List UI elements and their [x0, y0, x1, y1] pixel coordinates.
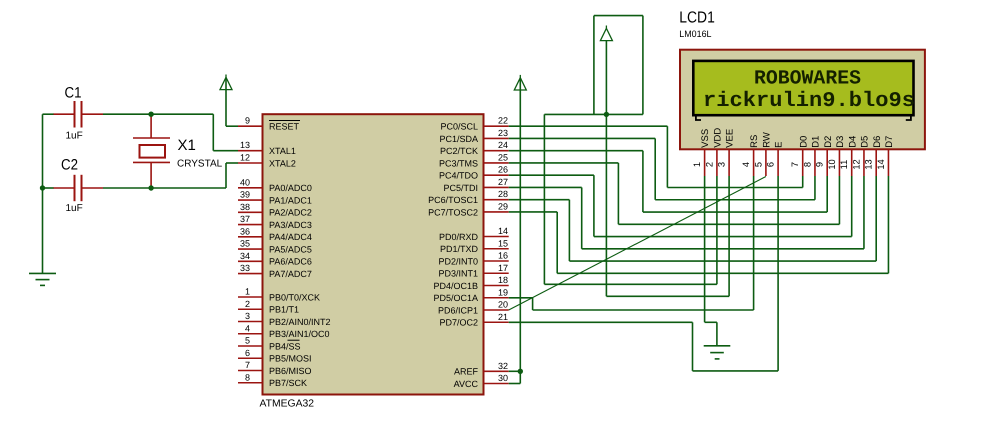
svg-text:rickrulin9.blo9s: rickrulin9.blo9s: [703, 90, 915, 113]
pin 6 (PB5/MOSI) stub + number + label: [238, 348, 312, 364]
pin 30 (AVCC) stub + number + label: [454, 373, 509, 389]
svg-text:D5: D5: [860, 136, 871, 148]
svg-text:28: 28: [498, 189, 508, 199]
crystal X1: [133, 114, 223, 188]
svg-text:2: 2: [704, 162, 714, 167]
svg-text:D4: D4: [847, 136, 858, 148]
svg-text:PD3/INT1: PD3/INT1: [438, 269, 478, 279]
wire PC5 (pin 27) to LCD D5: [509, 176, 864, 249]
IC U1 ATMEGA32 body: [263, 114, 484, 394]
svg-text:15: 15: [498, 238, 508, 248]
svg-text:X1: X1: [178, 137, 196, 154]
pin 15 (PD1/TXD) stub + number + label: [440, 238, 509, 254]
svg-text:11: 11: [839, 160, 849, 170]
pin 38 (PA2/ADC2) stub + number + label: [238, 202, 312, 218]
svg-text:25: 25: [498, 152, 508, 162]
pin 18 (PD4/OC1B) stub + number + label: [433, 275, 508, 291]
pin 37 (PA3/ADC3) stub + number + label: [238, 214, 312, 230]
svg-text:36: 36: [240, 226, 250, 236]
svg-text:22: 22: [498, 116, 508, 126]
svg-text:37: 37: [240, 214, 250, 224]
svg-text:4: 4: [245, 323, 250, 333]
LCD pin 4 (RS) stub + number + label: [741, 135, 760, 176]
LCD pin 10 (D3) stub + number + label: [827, 136, 846, 176]
svg-text:PD0/RXD: PD0/RXD: [439, 232, 479, 242]
svg-text:23: 23: [498, 128, 508, 138]
svg-text:35: 35: [240, 239, 250, 249]
pin 14 (PD0/RXD) stub + number + label: [439, 226, 509, 242]
pin 4 (PB3/AIN1/OC0) stub + number + label: [238, 323, 330, 339]
svg-text:LCD1: LCD1: [679, 10, 715, 27]
svg-text:24: 24: [498, 140, 508, 150]
svg-text:PC4/TDO: PC4/TDO: [439, 171, 478, 181]
pin 25 (PC3/TMS) stub + number + label: [439, 152, 509, 168]
wire RS net (PD5 pin 19 to LCD pin 4): [509, 176, 754, 310]
LCD pin 8 (D1) stub + number + label: [802, 136, 821, 176]
wire AVCC: [509, 371, 521, 383]
svg-text:20: 20: [498, 300, 508, 310]
LCD LM016L body: [680, 50, 925, 150]
svg-text:PD6/ICP1: PD6/ICP1: [438, 305, 478, 315]
svg-text:6: 6: [245, 348, 250, 358]
svg-text:40: 40: [240, 177, 250, 187]
LCD pin 1 (VSS) stub + number + label: [692, 129, 711, 176]
svg-text:PD7/OC2: PD7/OC2: [439, 318, 478, 328]
wire VDD net (top loop + lane to LCD pin 2): [544, 16, 717, 285]
node C2/ground junction: [40, 185, 45, 190]
svg-text:C1: C1: [65, 85, 82, 102]
svg-text:16: 16: [498, 251, 508, 261]
wire PC1 (pin 23) to LCD D1: [509, 138, 815, 199]
LCD pin 3 (VEE) stub + number + label: [717, 129, 736, 176]
svg-text:PD4/OC1B: PD4/OC1B: [433, 281, 478, 291]
LCD pin 5 (RW) stub + number + label: [753, 132, 772, 176]
pin 23 (PC1/SDA) stub + number + label: [439, 128, 508, 144]
pin 20 (PD6/ICP1) stub + number + label: [438, 300, 509, 316]
wire E net (PD7 pin 21 to LCD pin 6): [509, 176, 778, 371]
svg-text:D6: D6: [872, 136, 883, 148]
svg-text:19: 19: [498, 287, 508, 297]
pin 33 (PA7/ADC7) stub + number + label: [238, 263, 312, 279]
svg-text:XTAL2: XTAL2: [269, 158, 296, 168]
svg-text:26: 26: [498, 165, 508, 175]
LCD display screen: [693, 61, 913, 115]
svg-text:13: 13: [864, 159, 874, 169]
LCD pin 7 (D0) stub + number + label: [790, 136, 809, 176]
svg-text:PD2/INT0: PD2/INT0: [438, 256, 478, 266]
wire PC6 (pin 28) to LCD D6: [509, 176, 877, 261]
svg-text:5: 5: [753, 162, 763, 167]
svg-text:PA1/ADC1: PA1/ADC1: [269, 195, 312, 205]
wire VEE net (arrow lane to LCD pin 3): [606, 114, 729, 296]
svg-text:29: 29: [498, 201, 508, 211]
pin 8 (PB7/SCK) stub + number + label: [238, 372, 307, 388]
svg-text:XTAL1: XTAL1: [269, 146, 296, 156]
svg-text:PC0/SCL: PC0/SCL: [440, 122, 478, 132]
pin 9 (RESET) stub + number + label: [238, 116, 300, 132]
svg-text:D3: D3: [835, 136, 846, 148]
svg-text:9: 9: [815, 162, 825, 167]
pin 39 (PA1/ADC1) stub + number + label: [238, 190, 312, 206]
LCD pin 6 (E) stub + number + label: [766, 141, 785, 176]
pin 26 (PC4/TDO) stub + number + label: [439, 165, 509, 181]
svg-text:7: 7: [245, 360, 250, 370]
pin 22 (PC0/SCL) stub + number + label: [440, 116, 508, 132]
svg-text:PB4/SS: PB4/SS: [269, 341, 301, 351]
svg-text:9: 9: [245, 116, 250, 126]
pin 1 (PB0/T0/XCK) stub + number + label: [238, 287, 320, 303]
svg-text:RS: RS: [749, 135, 760, 148]
pin 13 (XTAL1) stub + number + label: [238, 140, 296, 156]
svg-text:34: 34: [240, 251, 250, 261]
svg-text:VSS: VSS: [700, 129, 711, 148]
ground (LCD): [704, 346, 731, 359]
pin 36 (PA4/ADC4) stub + number + label: [238, 226, 312, 242]
power VCC arrow (RESET): [220, 75, 238, 127]
svg-text:PB2/AIN0/INT2: PB2/AIN0/INT2: [269, 317, 331, 327]
svg-text:18: 18: [498, 275, 508, 285]
svg-text:PA6/ADC6: PA6/ADC6: [269, 257, 312, 267]
pin 5 (PB4/SS) stub + number + label: [238, 336, 301, 352]
svg-text:2: 2: [245, 299, 250, 309]
svg-text:PA0/ADC0: PA0/ADC0: [269, 183, 312, 193]
svg-text:39: 39: [240, 190, 250, 200]
svg-text:32: 32: [498, 361, 508, 371]
svg-text:1uF: 1uF: [66, 203, 83, 214]
pin 2 (PB1/T1) stub + number + label: [238, 299, 299, 315]
svg-text:E: E: [774, 141, 785, 147]
svg-text:D1: D1: [811, 136, 822, 148]
LCD screen corner marks: [696, 116, 701, 120]
svg-text:LM016L: LM016L: [679, 29, 711, 39]
pin 34 (PA6/ADC6) stub + number + label: [238, 251, 312, 267]
svg-text:1uF: 1uF: [66, 131, 83, 142]
svg-text:PB6/MISO: PB6/MISO: [269, 366, 312, 376]
capacitor C1: [53, 85, 103, 142]
LCD pin 13 (D6) stub + number + label: [864, 136, 883, 176]
svg-text:ROBOWARES: ROBOWARES: [754, 68, 861, 91]
wire C1 net to XTAL1: [43, 114, 239, 151]
node VDD junction: [604, 112, 609, 117]
pin 32 (AREF) stub + number + label: [454, 361, 509, 377]
LCD pin 14 (D7) stub + number + label: [876, 136, 895, 176]
svg-text:CRYSTAL: CRYSTAL: [177, 159, 223, 170]
node AREF junction: [518, 369, 523, 374]
svg-text:ATMEGA32: ATMEGA32: [260, 399, 315, 410]
svg-text:PA7/ADC7: PA7/ADC7: [269, 269, 312, 279]
svg-text:PD5/OC1A: PD5/OC1A: [433, 293, 478, 303]
svg-text:7: 7: [790, 162, 800, 167]
svg-text:PA5/ADC5: PA5/ADC5: [269, 244, 312, 254]
svg-text:PB7/SCK: PB7/SCK: [269, 378, 307, 388]
pin 3 (PB2/AIN0/INT2) stub + number + label: [238, 311, 331, 327]
svg-text:6: 6: [766, 162, 776, 167]
svg-text:30: 30: [498, 373, 508, 383]
svg-text:PD1/TXD: PD1/TXD: [440, 244, 479, 254]
svg-text:VEE: VEE: [725, 129, 736, 148]
svg-text:D2: D2: [823, 136, 834, 148]
pin 28 (PC6/TOSC1) stub + number + label: [428, 189, 509, 205]
svg-text:10: 10: [827, 159, 837, 169]
svg-text:12: 12: [240, 153, 250, 163]
svg-text:8: 8: [245, 372, 250, 382]
pin 17 (PD3/INT1) stub + number + label: [438, 263, 508, 279]
svg-text:PA2/ADC2: PA2/ADC2: [269, 208, 312, 218]
svg-text:RESET: RESET: [269, 122, 300, 132]
wire PC2 (pin 24) to LCD D2: [509, 151, 828, 212]
svg-text:PC2/TCK: PC2/TCK: [440, 146, 478, 156]
wire left ground rail: [42, 114, 44, 273]
node C2/X1 junction: [148, 185, 153, 190]
svg-text:PB3/AIN1/OC0: PB3/AIN1/OC0: [269, 329, 330, 339]
svg-text:AVCC: AVCC: [454, 379, 479, 389]
svg-text:PC6/TOSC1: PC6/TOSC1: [428, 195, 478, 205]
svg-text:38: 38: [240, 202, 250, 212]
svg-text:VDD: VDD: [713, 128, 724, 148]
svg-text:PB5/MOSI: PB5/MOSI: [269, 354, 312, 364]
svg-text:PB1/T1: PB1/T1: [269, 305, 299, 315]
svg-text:12: 12: [851, 159, 861, 169]
svg-text:D7: D7: [884, 136, 895, 148]
svg-text:27: 27: [498, 177, 508, 187]
svg-text:PC3/TMS: PC3/TMS: [439, 158, 478, 168]
wire VSS net (LCD pin 1 to ground): [705, 176, 717, 346]
svg-text:PB0/T0/XCK: PB0/T0/XCK: [269, 292, 320, 302]
svg-text:PC1/SDA: PC1/SDA: [439, 134, 478, 144]
svg-text:5: 5: [245, 336, 250, 346]
wire RW net diagonal (PD6 pin 20 to LCD pin 5): [509, 177, 766, 311]
svg-text:3: 3: [245, 311, 250, 321]
node C1/X1 junction: [148, 112, 153, 117]
svg-text:17: 17: [498, 263, 508, 273]
svg-text:1: 1: [245, 287, 250, 297]
svg-text:D0: D0: [798, 136, 809, 148]
pin 40 (PA0/ADC0) stub + number + label: [238, 177, 312, 193]
svg-text:3: 3: [717, 162, 727, 167]
svg-text:8: 8: [802, 162, 812, 167]
svg-text:RW: RW: [762, 132, 773, 148]
svg-text:PC5/TDI: PC5/TDI: [443, 183, 478, 193]
LCD pin 9 (D2) stub + number + label: [815, 136, 834, 176]
svg-text:14: 14: [876, 159, 886, 169]
svg-text:PA4/ADC4: PA4/ADC4: [269, 232, 312, 242]
wire C2 net to XTAL2: [43, 163, 239, 188]
wire PC7 (pin 29) to LCD D7: [509, 176, 889, 273]
pin 7 (PB6/MISO) stub + number + label: [238, 360, 312, 376]
power VCC arrow (AREF/AVCC): [514, 75, 526, 371]
svg-text:21: 21: [498, 312, 508, 322]
pin 21 (PD7/OC2) stub + number + label: [439, 312, 508, 328]
ground (left): [29, 273, 56, 285]
LCD pin 2 (VDD) stub + number + label: [704, 128, 723, 176]
svg-text:4: 4: [741, 162, 751, 167]
pin 19 (PD5/OC1A) stub + number + label: [433, 287, 508, 303]
wire PC0 (pin 22) to LCD D0: [509, 126, 803, 187]
pin 24 (PC2/TCK) stub + number + label: [440, 140, 509, 156]
pin 12 (XTAL2) stub + number + label: [238, 153, 296, 169]
pin 29 (PC7/TOSC2) stub + number + label: [428, 201, 509, 217]
pin 16 (PD2/INT0) stub + number + label: [438, 251, 508, 267]
svg-text:AREF: AREF: [454, 367, 479, 377]
pin 27 (PC5/TDI) stub + number + label: [443, 177, 508, 193]
svg-text:14: 14: [498, 226, 508, 236]
svg-text:13: 13: [240, 140, 250, 150]
svg-text:33: 33: [240, 263, 250, 273]
svg-text:PA3/ADC3: PA3/ADC3: [269, 220, 312, 230]
svg-text:C2: C2: [61, 157, 78, 174]
wire PC3 (pin 25) to LCD D3: [509, 163, 840, 224]
wire PC4 (pin 26) to LCD D4: [509, 175, 852, 236]
power VCC arrow (VDD): [600, 26, 612, 115]
capacitor C2: [53, 157, 103, 214]
svg-text:PC7/TOSC2: PC7/TOSC2: [428, 207, 478, 217]
LCD pin 11 (D4) stub + number + label: [839, 136, 858, 176]
svg-text:1: 1: [692, 162, 702, 167]
pin 35 (PA5/ADC5) stub + number + label: [238, 239, 312, 255]
LCD pin 12 (D5) stub + number + label: [851, 136, 870, 176]
wire AREF: [509, 370, 521, 372]
